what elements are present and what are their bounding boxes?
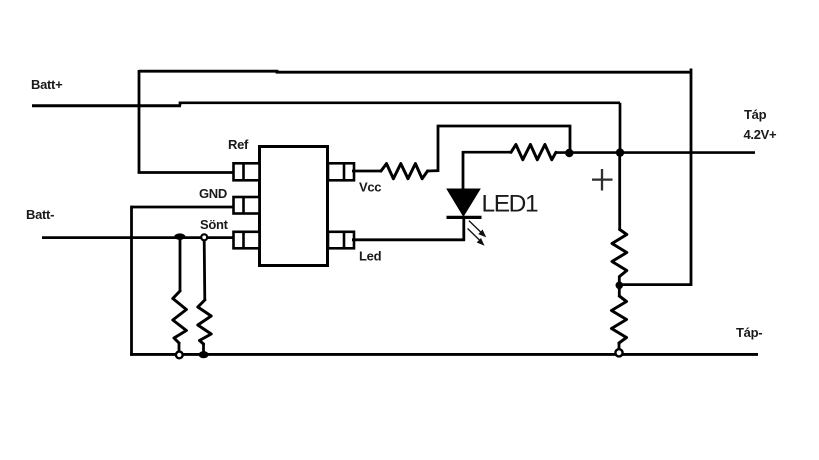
wire R6 tail <box>202 343 205 353</box>
wire R5 top lead <box>179 237 182 292</box>
wire V3 from Tap+ node down to R3 <box>618 153 621 231</box>
svg-text:Led: Led <box>359 249 382 264</box>
wire R4 tail to Tap- terminal <box>618 342 621 351</box>
resistor R5 (left shunt 1) <box>173 291 187 343</box>
wire bottom rail <box>130 353 758 356</box>
wire R5 tail <box>178 342 181 352</box>
wire Batt+ terminal (left segment) <box>32 104 181 107</box>
wire mid junction to R4 <box>618 285 621 297</box>
svg-text:Batt-: Batt- <box>26 207 54 222</box>
svg-text:Sönt: Sönt <box>200 217 229 232</box>
wire vertical V2 GND down to bottom rail <box>130 206 133 356</box>
svg-text:Táp: Táp <box>744 107 767 122</box>
wire GND lead <box>132 206 237 209</box>
wire Led pin lead <box>352 238 465 241</box>
svg-text:Vcc: Vcc <box>359 180 381 195</box>
plus symbol <box>592 169 613 191</box>
wire R6 top lead <box>203 240 206 301</box>
pin Vcc (pin outline) <box>328 163 354 180</box>
LED light arrow 1 <box>469 221 485 237</box>
wire Vcc lead <box>352 170 382 173</box>
pin Ref (pin outline) <box>234 163 260 180</box>
wire R1 to top jog <box>428 126 571 171</box>
junction dot at R2 output <box>565 149 573 157</box>
junction dot at x=620 on Tap+ rail <box>616 148 624 156</box>
wire LED anode drop <box>462 151 465 190</box>
wire Batt- / Sönt lead <box>42 236 236 239</box>
svg-text:Batt+: Batt+ <box>31 77 63 92</box>
wire Ref lead <box>138 171 236 174</box>
IC U1 body <box>260 147 328 266</box>
wire Tap+ horizontal rail <box>462 151 511 154</box>
wire top line A <box>139 71 691 72</box>
pin Led (pin outline) <box>328 232 354 249</box>
resistor R2 (LED series) <box>511 145 556 160</box>
junction dot mid right divider <box>616 282 624 290</box>
resistor R1 (Vcc series) <box>381 164 428 179</box>
pin GND (pin outline) <box>234 197 260 214</box>
wire Batt+ to top-right corner (stepped segment) <box>180 103 620 106</box>
junction blob R5 top on Sönt wire <box>174 233 185 239</box>
wire V4 right vertical from top line <box>621 69 691 285</box>
open terminal circle on bottom rail (Tap-) <box>615 349 622 356</box>
LED light arrow 2 <box>468 229 484 245</box>
resistor R6 (left shunt 2) <box>198 300 211 344</box>
svg-text:Táp-: Táp- <box>736 325 762 340</box>
svg-text:GND: GND <box>199 186 227 201</box>
wire LED cathode drop <box>462 218 465 241</box>
resistor R4 (lower right vertical) <box>612 296 627 343</box>
open terminal circle R5 bottom <box>176 352 183 359</box>
LED D1 cathode bar <box>447 216 482 219</box>
open circle R6 top on Sönt wire <box>201 234 207 240</box>
wire vertical drop x=620 into Tap+ node <box>619 103 622 153</box>
svg-text:4.2V+: 4.2V+ <box>744 127 778 142</box>
wire R3 to mid junction <box>618 276 621 286</box>
svg-text:LED1: LED1 <box>482 191 538 218</box>
LED D1 triangle <box>448 189 480 215</box>
resistor R3 (upper right vertical) <box>612 230 627 277</box>
svg-text:Ref: Ref <box>228 137 249 152</box>
wire R2 to Tap+ output <box>556 151 755 154</box>
pin Sönt (pin outline) <box>234 232 260 249</box>
junction blob R6 bottom on bottom rail <box>199 351 209 358</box>
wire vertical V1 down to Ref <box>138 70 141 173</box>
